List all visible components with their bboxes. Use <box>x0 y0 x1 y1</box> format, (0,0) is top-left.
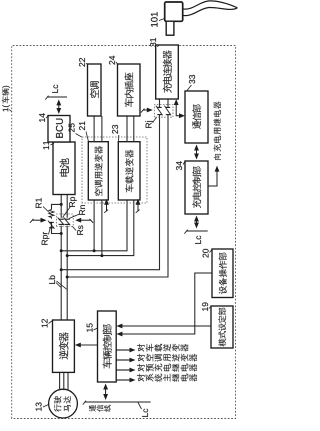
label 1(vehicle) with leader <box>2 105 9 111</box>
A/C inverter 21 <box>88 142 108 200</box>
communication unit 33 <box>185 91 208 143</box>
inverter 12 (drive inverter) <box>53 320 75 372</box>
junction riser1/bus+ <box>60 249 63 252</box>
wire: 19 to VCU 15 arrow <box>121 325 211 327</box>
wire: riser bus+ to AC inverter 21 / onboard inverter 23 <box>61 200 127 251</box>
wire: precharge branch around Rp <box>52 204 62 209</box>
label 12 <box>42 319 48 327</box>
junction riser4/bus- <box>66 276 69 279</box>
label 11 <box>43 141 49 149</box>
communication line (vertical) bottom-left <box>85 401 151 403</box>
wire: 21 to A/C 22 <box>93 116 95 142</box>
relay Rn contact <box>65 223 70 225</box>
wire: 23 to socket 24 <box>126 116 128 142</box>
battery 11 <box>53 142 75 195</box>
charging gun stem <box>166 21 174 35</box>
label 22 <box>79 58 85 67</box>
double arrow comm line to VCU 15 <box>105 389 107 396</box>
wire: three-phase lines motor-inverter <box>59 372 61 390</box>
control arrow to AC inverter <box>116 359 130 361</box>
wire: DC bus positive line Lb (from inverter 12 to SMR box) <box>60 226 62 320</box>
label 23 with leader <box>112 125 118 134</box>
charging gun 101 body <box>165 2 183 21</box>
label 20 <box>203 249 209 258</box>
junction riser3/bus+ <box>60 268 63 271</box>
motor 13 (traction motor) circle <box>49 389 78 418</box>
control stub arrow to Rpr <box>30 219 34 223</box>
label 19 <box>202 302 208 310</box>
control stub arrow to Rj <box>141 109 145 113</box>
text: to system main relay <box>137 374 197 382</box>
wire: DC bus positive line Lb (SMR box to battery) <box>60 195 62 218</box>
mode setting unit 19 <box>211 306 233 348</box>
relay Rj contact - <box>166 114 170 116</box>
in-vehicle socket 24 <box>118 64 141 116</box>
text: to precharge relay <box>137 364 197 372</box>
junction riser1/branch21 <box>93 249 96 252</box>
label Lc (top right) <box>52 85 58 93</box>
double arrow 34 to 33 <box>196 150 198 155</box>
label 14 <box>39 113 45 122</box>
label comm line (tongxinxian) <box>89 405 111 412</box>
wire: 20 to VCU 15 arrow <box>121 273 212 334</box>
comm line stub near 34 <box>187 230 208 232</box>
label 21 with leader <box>79 121 85 130</box>
wire: branch to AC inverter 21 (-) <box>101 200 103 256</box>
wire: bus+ to charge connector 31 (through relay Rj) <box>61 115 159 270</box>
label 33 <box>189 75 195 84</box>
label 15 <box>87 323 93 331</box>
label Rpr <box>42 232 50 245</box>
vehicle control unit 15 <box>98 311 117 382</box>
junction riser2/branch21 <box>100 254 103 257</box>
wire: DC bus negative line Lb (SMR box to battery) <box>66 195 68 218</box>
charging cable <box>183 7 238 15</box>
wire: inverter 12 to vehicle control 15 (arrow into 12) <box>79 344 98 346</box>
wire: riser bus- to inverters <box>67 200 134 256</box>
text: to onboard inverter <box>137 344 188 352</box>
control stub arrow into inverter 21 <box>104 210 108 213</box>
precharge relay Rpr contact <box>49 227 54 229</box>
control stub arrow into inverter 23 <box>136 210 140 213</box>
system main relay dashed box (Rs) <box>57 214 74 226</box>
onboard inverter 23 <box>118 142 140 200</box>
vehicle boundary dashed border (1 vehicle) <box>12 46 236 419</box>
double arrow BCU to comm line Lc <box>58 104 60 109</box>
wire: DC bus negative line Lb (from inverter 12 to SMR box) <box>66 226 68 320</box>
wire: branch to AC inverter 21 (+) <box>93 200 95 251</box>
charging relay Rj dashed box <box>155 105 174 118</box>
label 34 <box>176 161 182 170</box>
control arrow to onboard inverter <box>116 349 130 351</box>
double arrow: 31 to comm unit 33 <box>176 104 179 116</box>
label Rj <box>145 121 153 128</box>
junction precharge/bus+ <box>60 203 63 206</box>
device operation unit 20 <box>212 249 233 298</box>
arrow: 34 to charging relay (annotation) <box>208 172 217 187</box>
control arrow to system main relay <box>116 379 130 381</box>
charge control unit 34 <box>185 161 208 214</box>
junction precharge/bus+ <box>60 232 63 235</box>
label Rn <box>79 205 85 215</box>
resistor R1 zigzag <box>49 210 54 219</box>
charge connector 31 <box>156 45 179 99</box>
control arrow to precharge relay <box>116 369 130 371</box>
label Rs <box>77 225 83 234</box>
label 101 <box>151 12 158 27</box>
label Lc (near 34) <box>195 236 201 244</box>
relay Rp contact <box>59 223 64 225</box>
label Lc (bottom) with leader <box>142 409 148 417</box>
control stub arrow to SMR box <box>90 219 94 223</box>
label 24 <box>109 56 115 65</box>
text: to charging relay <box>213 101 221 159</box>
double arrow 34 to comm line Lc <box>196 221 198 224</box>
relay Rj contact + <box>157 114 161 116</box>
label 13 <box>36 402 42 410</box>
label R1 <box>36 198 42 208</box>
dashed box 25 around inverters 21/23 <box>82 137 147 203</box>
air conditioner 22 <box>88 64 102 116</box>
label 31 <box>150 38 156 47</box>
text: to A/C inverter <box>137 354 197 362</box>
label 25 with leader <box>69 123 75 132</box>
label Lb with leaders to bus lines <box>49 275 55 283</box>
comm line stub near BCU <box>48 96 68 98</box>
label Rp <box>69 197 77 207</box>
BCU 14 <box>48 116 70 143</box>
wire: bus- to charge connector 31 (through relay Rj) <box>67 115 168 277</box>
junction riser2/bus- <box>66 254 69 257</box>
